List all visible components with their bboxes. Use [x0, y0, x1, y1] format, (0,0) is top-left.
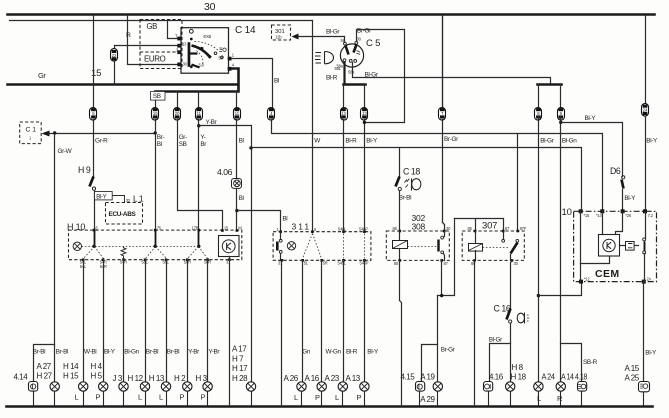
svg-text:11b: 11b: [276, 34, 283, 39]
lamp A26: [284, 374, 307, 406]
wire 302 pin87 jog: [438, 219, 455, 296]
wire Bl-R fuse13 to 311: [343, 120, 345, 232]
wire Bl-Y fuse24 to CEM pin 7.2: [644, 117, 646, 212]
wire 31 to ground: [229, 260, 231, 406]
lamp A19: [420, 373, 442, 406]
fog light icon: [404, 179, 421, 191]
wire 311 fan pin5: [303, 234, 322, 259]
wire 58R to lamp H2: [187, 260, 189, 382]
svg-text:C 14: C 14: [235, 25, 256, 36]
pin 87 of 302: [440, 259, 448, 266]
wire long to CEM pin +15: [252, 148, 582, 212]
lamp H12: [128, 374, 150, 406]
wire 54L to lamp H14 H15: [83, 260, 85, 382]
box A15 A25: [625, 364, 650, 406]
svg-text:13: 13: [341, 111, 346, 116]
wire H10 fan 6: [84, 247, 104, 259]
svg-text:Br-Bl: Br-Bl: [146, 349, 158, 356]
svg-text:56a: 56a: [348, 70, 355, 75]
pin 1 of 311: [277, 227, 283, 233]
fuse 13 Bl-Y: [361, 108, 368, 121]
contact of 302: [439, 232, 445, 261]
svg-text:GB: GB: [147, 22, 158, 31]
junction Bl-Y branch at fuse9: [559, 121, 562, 124]
connector symbol in 311: [276, 232, 282, 261]
wire K to pin31: [229, 257, 231, 260]
wire 307 feed line: [455, 219, 504, 232]
pin 546P- of 311: [360, 259, 369, 266]
bus 15: [8, 83, 237, 86]
lamp A17 H7 H17 H28: [232, 345, 256, 406]
wire Bl-Gr C5 to right: [353, 63, 551, 85]
resistor in H10: [121, 246, 126, 258]
lamp A27 H27: [37, 362, 60, 406]
wire C5 pin58 up: [344, 37, 346, 43]
svg-text:4.18: 4.18: [575, 373, 588, 382]
wire 5L to lamp A26: [302, 261, 304, 382]
wire SB drops to fuses: [156, 92, 237, 108]
svg-text:H 2: H 2: [174, 374, 186, 383]
relay 307 box: [462, 221, 524, 261]
junction Gr-W start: [53, 131, 56, 134]
svg-text:Bl-Gn: Bl-Gn: [562, 138, 577, 145]
svg-text:*12: *12: [584, 277, 590, 282]
junction at Br-Bl: [154, 131, 157, 134]
svg-text:R: R: [126, 32, 131, 39]
wire 54R resistor to lamp J3: [123, 260, 125, 382]
svg-text:A 13: A 13: [346, 374, 361, 383]
svg-text:Bl: Bl: [239, 195, 244, 202]
wire parking feed thin line: [10, 20, 313, 22]
lamp H2: [174, 374, 192, 406]
fuse 13 Bl-R: [341, 108, 348, 121]
pin 546P of 311: [359, 226, 368, 233]
svg-text:EURO: EURO: [144, 55, 166, 64]
diode 4.06: [217, 167, 242, 188]
svg-text:15: 15: [153, 111, 158, 116]
svg-text:Bl: Bl: [274, 78, 279, 85]
wire CEM pin12 jog: [539, 282, 582, 296]
diode 4.16: [484, 373, 504, 406]
svg-text:10: 10: [562, 207, 572, 218]
svg-text:Gr: Gr: [38, 71, 46, 80]
relay 302 308 box: [386, 213, 449, 260]
wire C16 to lamp H8 H18: [510, 324, 512, 382]
svg-text:A 26: A 26: [284, 374, 299, 383]
pin 31 of H10 bottom: [226, 258, 231, 264]
wire CEM +15 internal: [580, 212, 582, 282]
svg-text:L: L: [159, 393, 163, 402]
pin 86 of 307: [471, 259, 476, 266]
fuse 7: [439, 108, 446, 121]
lamp A23: [325, 374, 348, 406]
svg-text:546L: 546L: [338, 261, 347, 266]
svg-text:A 19: A 19: [420, 373, 435, 382]
svg-text:546L: 546L: [338, 226, 347, 231]
junction 87 br-gr: [440, 294, 443, 297]
junction 4.06 branch: [235, 209, 238, 212]
wire bracket to 4.16: [490, 344, 511, 382]
pin 546L- of 311: [338, 259, 347, 266]
pin 5L of 311: [302, 259, 309, 266]
pin 58L of H10 bottom: [163, 258, 170, 264]
lamp symbol in H10: [73, 242, 81, 250]
wire to 307 pin 87F: [517, 134, 519, 232]
diode 4.14: [14, 373, 38, 406]
wire Bl-Gn fuse9 to lamp A14: [560, 117, 562, 382]
svg-text:Gr-SB: Gr-SB: [179, 134, 187, 148]
node Bl-Y boxed label: [95, 192, 113, 201]
pin 2A of CEM bottom: [642, 277, 652, 284]
ground bus: [7, 405, 653, 408]
wire Bl branch to 311 pin1: [237, 211, 281, 232]
pin 7.2 of CEM: [643, 209, 654, 218]
fuse 8: [535, 108, 542, 121]
svg-text:4.15: 4.15: [401, 373, 416, 382]
fuse 11 Y-Br: [196, 108, 203, 121]
pin 13 of C14: [177, 42, 187, 48]
pin 85 of 307: [468, 226, 477, 232]
junction Y-Br to CEM line: [249, 146, 252, 149]
svg-text:307: 307: [482, 221, 497, 232]
svg-text:W-Bl: W-Bl: [84, 349, 96, 356]
svg-text:L: L: [75, 393, 79, 402]
pin 546L of 311: [338, 226, 347, 233]
wire 54R to lamp H4 H5: [103, 260, 105, 382]
wire H9 to H10 pin 6: [94, 191, 96, 231]
wire 311 pin31 to ground: [281, 261, 283, 406]
svg-text:P: P: [357, 393, 362, 402]
wire Br-Gr to lamp A19: [437, 296, 439, 382]
svg-text:*15: *15: [584, 213, 590, 218]
svg-text:Bl-Gr: Bl-Gr: [326, 29, 340, 36]
wire CEM +14 to K: [602, 212, 604, 235]
svg-text:A 24: A 24: [542, 373, 556, 382]
svg-text:C 18: C 18: [403, 167, 420, 177]
svg-text:J 3: J 3: [113, 374, 123, 383]
fuse 5: [90, 108, 97, 121]
wire Br-Gr fuse7 to 302 pin30: [443, 120, 445, 232]
svg-text:Bl: Bl: [239, 138, 244, 145]
svg-text:SB: SB: [153, 93, 161, 100]
coil of 307: [469, 232, 483, 261]
wire 5R to lamp A16: [321, 261, 323, 382]
wire 302 pin85 to ground: [400, 261, 402, 406]
ecu ECU-ABS box: [106, 203, 143, 225]
wire Y-Br fuse11 to H10 pin17B: [198, 120, 200, 231]
svg-text:2A: 2A: [647, 277, 652, 282]
lamp A13: [346, 374, 370, 406]
wire CEM 2A to box A15 A25: [643, 282, 645, 382]
fuse 22: [111, 49, 118, 62]
svg-text:Bl-R: Bl-R: [346, 349, 358, 356]
diode 4.18: [575, 373, 588, 406]
svg-text:P: P: [201, 393, 206, 402]
relay K in H10: [219, 236, 240, 257]
switch C18: [396, 167, 421, 191]
switch H10 box: [67, 222, 242, 260]
svg-text:546P: 546P: [359, 226, 368, 231]
lamp H13: [149, 374, 171, 406]
lamp H14 H15: [63, 362, 88, 406]
wire to C18: [399, 148, 401, 177]
pin 87F of 307: [517, 226, 527, 232]
wire 307 actuation dashes: [483, 247, 509, 249]
svg-text:C 1: C 1: [26, 127, 37, 134]
switch C14 box: [181, 28, 229, 73]
wire fuse22 to bus15: [114, 62, 116, 85]
svg-text:4.14: 4.14: [14, 373, 29, 382]
svg-text:H 4H 5: H 4H 5: [91, 362, 103, 381]
svg-text:Bl-Y: Bl-Y: [585, 115, 597, 122]
svg-text:308: 308: [412, 222, 426, 232]
svg-text:Gr-W: Gr-W: [58, 148, 73, 155]
wire 311 pass 546P: [364, 234, 366, 259]
wire CEM +26 to K: [616, 212, 623, 235]
wire H10 stub pin75: [155, 231, 157, 247]
svg-text:L: L: [294, 393, 298, 402]
wire bracket 4.18: [561, 344, 582, 382]
pin 87 of 307: [502, 226, 510, 232]
svg-text:Bl-Gn: Bl-Gn: [124, 349, 139, 356]
pin 15 of H10: [221, 225, 229, 232]
connector 301 box: [272, 25, 291, 40]
pin 5 of 311: [311, 227, 317, 233]
connector C1 box: [20, 122, 42, 144]
wire bus30 to fuse 7: [442, 16, 444, 108]
wire Br-Gr loop: [357, 30, 405, 123]
wire H10 internal dashed row: [82, 246, 199, 248]
wire Gr-W to lamp A27: [54, 134, 56, 382]
pin 75 of H10: [154, 225, 162, 231]
wire Bl-Y to L1 pin 32: [113, 196, 125, 203]
pin 58R of H10 bottom: [204, 258, 211, 264]
lamp H8 H18: [506, 363, 527, 406]
svg-text:Bl-Y: Bl-Y: [366, 138, 378, 145]
pin 30 of C14: [177, 63, 181, 67]
wire fuse bar right: [538, 83, 562, 86]
svg-text:Bl-Y: Bl-Y: [96, 194, 106, 200]
svg-text:*14: *14: [596, 213, 602, 218]
wire 58R2 to lamp H3: [207, 260, 209, 382]
wire 302 actuation dashes: [408, 246, 437, 248]
wire bus30 to fuse 5: [93, 16, 95, 108]
pin 85 of 302: [394, 259, 401, 266]
svg-text:Bl: Bl: [282, 216, 287, 223]
wire fuse bar left: [344, 83, 366, 86]
pin 17B of H10: [192, 225, 201, 231]
svg-text:L: L: [138, 393, 142, 402]
wire Y-Br branch to lamp column: [199, 126, 252, 382]
svg-text:Bl-Gr: Bl-Gr: [365, 72, 379, 79]
wire C5 58L down thick: [343, 62, 345, 85]
wire bus30 to fuse 24: [645, 16, 647, 104]
wire to C1 with arrow: [42, 131, 156, 137]
ecu CEM box: [562, 207, 657, 282]
pin 31b of H10: [236, 225, 243, 232]
wire Bl 4.06 to junction: [236, 189, 238, 231]
wire 58L to lamp H12: [145, 260, 147, 382]
pin 54L of H10 bottom: [80, 258, 87, 269]
headlight icon: [315, 52, 334, 64]
wire Bl fuse11 to diode 4.06: [236, 120, 238, 179]
wire SB thick from C14 pin4: [156, 69, 239, 92]
connector 311 box: [273, 222, 371, 261]
wire Bl-Gr fuse8 to lamp A24: [538, 117, 540, 382]
svg-text:Br-Gr: Br-Gr: [357, 28, 372, 35]
contact in CEM right: [643, 212, 646, 282]
junction Y-Br branch: [197, 124, 200, 127]
wire 311 pass 546L: [343, 234, 345, 259]
lamp A14: [556, 373, 574, 406]
wire Bl C14 pin1 to fuse4: [232, 59, 273, 108]
svg-text:Y-Br: Y-Br: [206, 119, 218, 126]
svg-text:Bl-Y: Bl-Y: [646, 138, 658, 145]
svg-text:L: L: [537, 394, 541, 403]
pin 5R of 311: [320, 259, 327, 266]
wire W from parking line to 311 pin5: [312, 21, 314, 232]
connector EURO box: [140, 52, 182, 69]
svg-text:11: 11: [235, 111, 240, 116]
pin +15 of CEM: [579, 209, 590, 218]
svg-text:C 5: C 5: [366, 38, 380, 49]
svg-text:Br-Bl: Br-Bl: [399, 195, 411, 202]
wire Gr-R fuse5 to H9: [93, 120, 95, 177]
svg-text:Bl-Y: Bl-Y: [104, 349, 116, 356]
svg-text:20: 20: [175, 111, 180, 116]
svg-text:Br-Bl: Br-Bl: [56, 349, 68, 356]
wire 307 pin30 to C16: [511, 261, 513, 309]
svg-text:22: 22: [112, 53, 117, 58]
wire R to C14 pin30: [128, 16, 179, 65]
wire H10 stub pin6: [94, 231, 96, 247]
wire 546P to lamp A13: [364, 261, 366, 382]
pin 54R of H10 bottom: [120, 258, 127, 264]
svg-text:Bl-Y: Bl-Y: [367, 349, 379, 356]
svg-text:Gr-R: Gr-R: [95, 138, 108, 145]
svg-text:13: 13: [362, 111, 367, 116]
pin 54R of H10 bottom: [100, 258, 107, 269]
pin 6 of H10: [93, 225, 99, 231]
rear fog icon: [517, 313, 529, 324]
wire bracket 4.14: [34, 345, 55, 382]
svg-text:A 16: A 16: [305, 374, 320, 383]
svg-text:Bl-Y: Bl-Y: [624, 195, 636, 202]
svg-text:P: P: [315, 393, 320, 402]
svg-text:311: 311: [292, 222, 312, 232]
svg-text:A 14: A 14: [561, 373, 574, 382]
svg-text:D6: D6: [610, 166, 621, 176]
wire H10 fan 17B: [188, 247, 208, 259]
wire C18 to 302 pin 86: [399, 191, 401, 232]
node SB label box: [151, 92, 166, 101]
svg-text:L: L: [335, 393, 339, 402]
svg-text:4.16: 4.16: [489, 373, 504, 382]
lamp A16: [305, 374, 327, 406]
wire 58L2 to lamp H13: [166, 260, 168, 382]
wire Gr-SB fuse20 jog to H10 pin15: [178, 120, 223, 231]
svg-text:15: 15: [91, 68, 101, 79]
junction Br-Gr loop at fuse: [363, 121, 366, 124]
svg-text:H 13: H 13: [149, 374, 165, 383]
svg-text:Br-Gr: Br-Gr: [444, 136, 459, 143]
lamp H4 H5: [91, 362, 108, 406]
svg-text:A 29: A 29: [420, 395, 435, 404]
wire Bl-Y branch to D6: [561, 123, 623, 177]
svg-text:87F: 87F: [520, 226, 527, 231]
coil of 302: [393, 232, 408, 261]
svg-text:A 27H 27: A 27H 27: [37, 362, 53, 381]
pin 86 of 302: [393, 226, 402, 232]
wire 307 pin86 to ground: [474, 261, 476, 406]
connector GB box: [140, 20, 182, 53]
svg-text:W-Gn: W-Gn: [326, 349, 342, 356]
pin 1 of C14: [228, 53, 235, 61]
svg-text:P: P: [180, 393, 185, 402]
lamp H3: [196, 374, 213, 406]
wire H10 fan 75: [146, 247, 167, 259]
svg-text:Y-Br: Y-Br: [208, 349, 220, 356]
contact of 307: [502, 232, 519, 261]
svg-text:ECU-ABS: ECU-ABS: [109, 211, 137, 218]
svg-text:Br-Bl: Br-Bl: [167, 349, 179, 356]
wire fuse22 top to C14 pin 13: [115, 46, 179, 49]
wire H10 stub pin17B: [198, 231, 200, 247]
wire bracket 4.15: [422, 345, 438, 382]
relay K in CEM: [599, 235, 620, 257]
svg-text:H 14H 15: H 14H 15: [63, 362, 79, 381]
wire CEM K coil bottom: [581, 257, 610, 264]
pin +14 of CEM: [596, 209, 604, 218]
junction CEM 12 jog: [537, 294, 540, 297]
fuse 20: [174, 108, 181, 121]
fuse 15: [152, 108, 159, 121]
svg-text:H 9: H 9: [78, 165, 91, 175]
lamp A24: [534, 373, 556, 406]
pin T of C14: [175, 34, 181, 41]
svg-text:A 15A 25: A 15A 25: [625, 364, 640, 383]
pin 30 of 307: [511, 259, 519, 266]
plug symbol in CEM: [620, 242, 639, 251]
svg-text:Y-Br: Y-Br: [188, 349, 200, 356]
wire Bl-Y fuse13 to 311: [364, 120, 366, 232]
svg-text:H 12: H 12: [128, 374, 144, 383]
svg-text:Bl-R: Bl-R: [326, 75, 338, 82]
wire GB feed to C14 pin T: [168, 21, 179, 39]
svg-text:*26: *26: [625, 213, 631, 218]
switch D6: [610, 166, 625, 189]
fuse 24: [642, 104, 649, 117]
fuse 9: [558, 108, 565, 121]
svg-text:Br-Gr: Br-Gr: [441, 347, 456, 354]
svg-text:Bl-Gr: Bl-Gr: [540, 138, 554, 145]
lamp J3: [113, 374, 129, 406]
pin +26 of CEM: [621, 209, 632, 218]
svg-text:30: 30: [204, 1, 216, 13]
svg-text:4.06: 4.06: [217, 167, 233, 177]
svg-text:Bl-Gr: Bl-Gr: [489, 337, 503, 344]
svg-text:Bl-Y: Bl-Y: [645, 350, 657, 357]
pin 30 of 302: [443, 226, 451, 232]
svg-text:5R: 5R: [323, 261, 328, 266]
svg-text:CEM: CEM: [595, 268, 620, 280]
fuse 4: [268, 108, 275, 121]
svg-text:A 23: A 23: [325, 374, 340, 383]
svg-text:Gn: Gn: [302, 349, 311, 356]
pin 58R of H10 bottom: [184, 258, 191, 264]
pin 3 of C14: [176, 48, 181, 55]
switch C16: [494, 304, 512, 324]
